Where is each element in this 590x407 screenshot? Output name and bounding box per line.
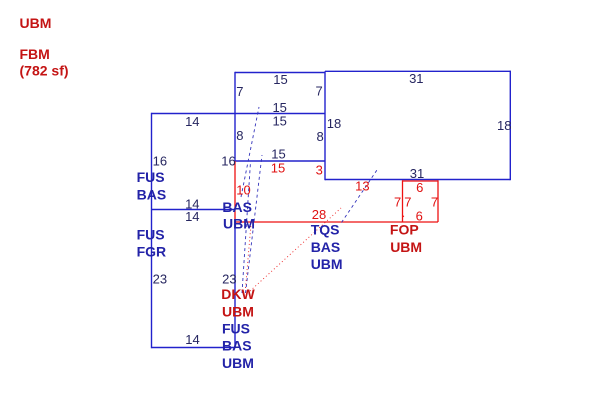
- svg-text:16: 16: [153, 153, 167, 168]
- svg-text:BAS: BAS: [311, 239, 341, 255]
- wall horizontal y=113.5: [152, 113, 326, 115]
- svg-text:7: 7: [404, 194, 411, 209]
- svg-text:13: 13: [355, 178, 369, 193]
- wall vertical x=235 upper blue: [234, 72, 236, 161]
- svg-text:(782 sf): (782 sf): [20, 63, 69, 79]
- svg-text:BAS: BAS: [222, 199, 252, 215]
- wall right vertical big box x=510: [509, 71, 511, 181]
- wall left vertical x=151.5: [151, 113, 153, 348]
- red wall horizontal y=222 (28+6): [235, 221, 438, 223]
- svg-text:BAS: BAS: [222, 338, 252, 354]
- svg-text:UBM: UBM: [222, 355, 254, 371]
- svg-text:7: 7: [236, 84, 243, 99]
- wall bottom horizontal big box y=179.5: [325, 179, 510, 181]
- leader dotted red DKW short: [246, 224, 252, 288]
- svg-text:31: 31: [409, 71, 423, 86]
- svg-text:15: 15: [271, 160, 285, 175]
- leader dashed blue BAS/UBM: [241, 107, 259, 197]
- svg-text:FOP: FOP: [390, 222, 419, 238]
- svg-text:14: 14: [185, 332, 199, 347]
- svg-text:UBM: UBM: [223, 215, 255, 231]
- wall vertical x=235 lower blue: [234, 220, 236, 348]
- svg-text:10: 10: [236, 182, 250, 197]
- svg-text:7: 7: [316, 83, 323, 98]
- red wall FOP top horizontal y=181: [403, 180, 439, 182]
- svg-text:14: 14: [185, 114, 199, 129]
- svg-text:18: 18: [327, 116, 341, 131]
- wall horizontal y=209.5: [152, 209, 236, 211]
- svg-text:8: 8: [317, 129, 324, 144]
- svg-text:23: 23: [222, 271, 236, 286]
- svg-text:18: 18: [497, 118, 511, 133]
- wall divider vertical x=325: [324, 71, 326, 180]
- svg-text:28: 28: [312, 207, 326, 222]
- svg-text:7: 7: [394, 194, 401, 209]
- svg-text:UBM: UBM: [20, 15, 52, 31]
- svg-text:14: 14: [185, 209, 199, 224]
- svg-text:15: 15: [272, 113, 286, 128]
- red wall FOP left vertical x=402.5: [402, 180, 404, 222]
- red wall FOP right vertical x=438: [437, 180, 439, 222]
- leader dotted red DKW long: [250, 208, 341, 291]
- svg-text:UBM: UBM: [311, 256, 343, 272]
- svg-text:DKW: DKW: [221, 286, 255, 302]
- leader dashed blue TQS: [342, 170, 378, 223]
- svg-text:BAS: BAS: [137, 186, 167, 202]
- wall horizontal y=161: [235, 160, 325, 162]
- svg-text:TQS: TQS: [311, 222, 340, 238]
- svg-text:15: 15: [271, 146, 285, 161]
- svg-text:23: 23: [153, 271, 167, 286]
- svg-text:8: 8: [236, 128, 243, 143]
- svg-text:16: 16: [221, 153, 235, 168]
- svg-text:FBM: FBM: [20, 46, 50, 62]
- wall bottom horizontal y=347.5: [152, 347, 236, 349]
- wall top horizontal big box y=71.3: [325, 70, 510, 72]
- svg-text:6: 6: [416, 180, 423, 195]
- svg-text:3: 3: [316, 163, 323, 178]
- svg-text:FUS: FUS: [222, 320, 250, 336]
- svg-text:FGR: FGR: [137, 243, 167, 259]
- leader dashed blue DKW 2: [246, 155, 263, 293]
- svg-text:UBM: UBM: [390, 239, 422, 255]
- svg-text:FUS: FUS: [137, 169, 165, 185]
- svg-text:FUS: FUS: [137, 227, 165, 243]
- svg-text:7: 7: [431, 194, 438, 209]
- red wall vertical x=235 (10): [234, 161, 236, 222]
- wall top horizontal small box y=72.5: [235, 72, 325, 74]
- svg-text:31: 31: [410, 166, 424, 181]
- leader dot red FOP: [403, 216, 405, 218]
- svg-text:UBM: UBM: [222, 303, 254, 319]
- svg-text:15: 15: [273, 72, 287, 87]
- leader dashed blue DKW 1: [242, 162, 251, 293]
